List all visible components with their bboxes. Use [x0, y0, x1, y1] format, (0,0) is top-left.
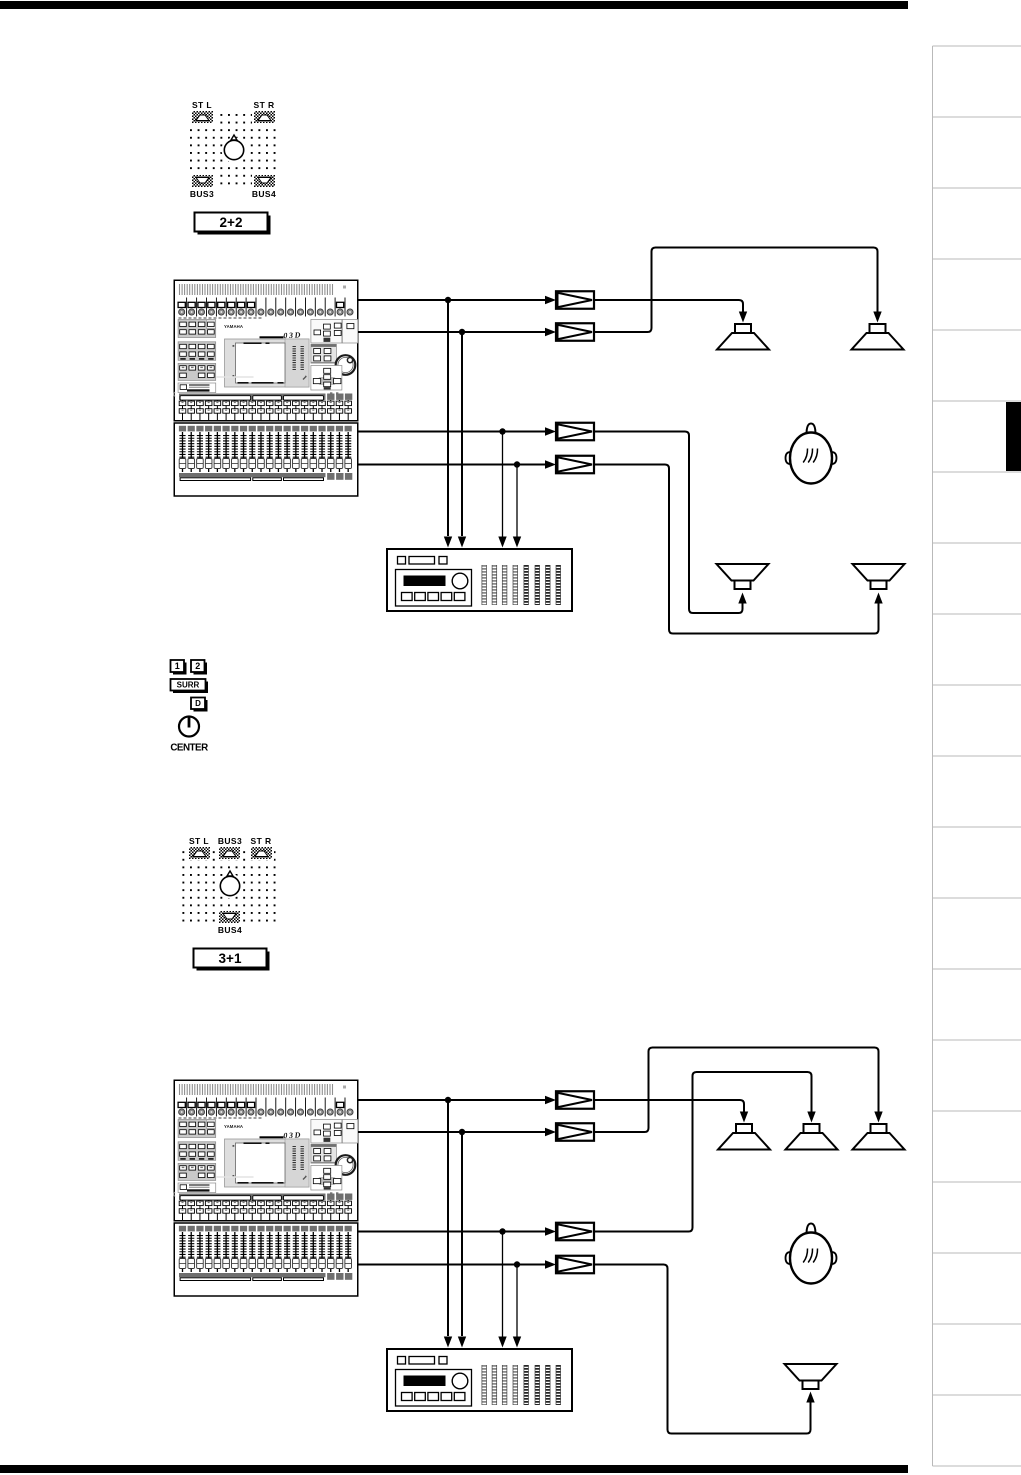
speaker icon ST R	[252, 110, 277, 125]
junction BUS3 (setup 2)	[499, 1228, 505, 1234]
svg-text:ST R: ST R	[251, 836, 272, 846]
svg-text:BUS4: BUS4	[218, 925, 242, 935]
drop wire ST L to recorder (setup 2)	[447, 1100, 449, 1336]
wire amp1 to front-left speaker	[594, 300, 743, 312]
drop wire BUS4 to recorder	[516, 465, 518, 539]
LCD surround pan graphic 2+2	[185, 111, 279, 190]
active chapter tab (black)	[1006, 402, 1021, 471]
speaker icon BUS4	[252, 174, 277, 189]
amp 3 (center, setup 2)	[556, 1223, 594, 1241]
wire amp4 to rear-right speaker	[594, 465, 879, 634]
junction on BUS3 wire	[499, 428, 505, 434]
svg-text:ST R: ST R	[254, 100, 275, 110]
junction BUS4 (setup 2)	[514, 1261, 520, 1267]
junction on ST L wire	[445, 297, 451, 303]
rear-right speaker	[853, 564, 905, 589]
wire ST R out to amp 2 (setup 2)	[358, 1131, 546, 1133]
svg-text:3+1: 3+1	[219, 951, 242, 966]
listener head icon (3+1)	[218, 871, 243, 899]
top black rule	[0, 1, 908, 9]
right sidebar tab column	[933, 46, 1021, 1466]
speaker icon ST L (3+1)	[187, 846, 212, 861]
wire BUS3 out to amp 3 (setup 2)	[358, 1231, 546, 1233]
knob CENTER	[179, 717, 199, 737]
amp 3 (rear left)	[556, 423, 594, 441]
mode button 3+1	[197, 952, 270, 971]
multitrack recorder setup 2	[387, 1349, 572, 1411]
svg-text:BUS3: BUS3	[190, 189, 214, 199]
button SURR	[173, 682, 208, 694]
speaker icon BUS3 (3+1)	[217, 846, 242, 861]
svg-text:ST L: ST L	[189, 836, 209, 846]
speaker icon ST R (3+1)	[249, 846, 274, 861]
svg-text:ST L: ST L	[192, 100, 212, 110]
speaker icon ST L	[190, 110, 215, 125]
wire ST R out to amp 2	[358, 331, 546, 333]
wire ST L out to amp 1	[358, 299, 546, 301]
mode button 2+2	[198, 216, 271, 235]
svg-text:CENTER: CENTER	[170, 743, 208, 754]
drop wire ST L to recorder	[447, 300, 449, 536]
wire amp4 to rear speaker (setup 2)	[594, 1265, 811, 1434]
amp 4 (surround, setup 2)	[556, 1256, 594, 1274]
wire BUS4 out to amp 4 (setup 2)	[358, 1264, 546, 1266]
front-left speaker	[717, 324, 769, 350]
listener head setup 2	[786, 1224, 837, 1284]
mixer console (03D) setup 1	[174, 280, 358, 496]
multitrack recorder setup 1	[387, 549, 572, 611]
amp 4 (rear right)	[556, 456, 594, 474]
svg-text:2+2: 2+2	[220, 215, 243, 230]
button 1	[173, 663, 187, 675]
center speaker (setup 2)	[786, 1124, 838, 1150]
amp 2 (right, setup 2)	[556, 1123, 594, 1141]
svg-text:2: 2	[195, 661, 200, 671]
wire ST L out to amp 1 (setup 2)	[358, 1099, 546, 1101]
amp 1 (front left)	[556, 291, 594, 309]
mixer console (03D) setup 2	[174, 1080, 358, 1296]
speaker icon BUS3	[190, 174, 215, 189]
svg-text:D: D	[195, 699, 201, 708]
rear-left speaker	[717, 564, 769, 589]
amp 2 (front right)	[556, 323, 594, 341]
junction ST L (setup 2)	[445, 1097, 451, 1103]
front-right speaker	[852, 324, 904, 350]
bottom black rule	[0, 1465, 908, 1473]
wire amp1 to left speaker (setup 2)	[594, 1100, 744, 1112]
junction ST R (setup 2)	[459, 1129, 465, 1135]
drop wire BUS3 to recorder	[502, 432, 504, 539]
wire amp3 to rear-left speaker	[594, 432, 743, 614]
svg-text:BUS4: BUS4	[252, 189, 276, 199]
speaker icon BUS4 (3+1)	[217, 910, 242, 925]
svg-text:BUS3: BUS3	[218, 836, 242, 846]
button D	[194, 700, 208, 712]
LCD surround pan graphic 3+1	[182, 847, 278, 926]
wire BUS3 out to amp 3	[358, 431, 546, 433]
wire amp3 to center speaker (setup 2)	[594, 1072, 812, 1232]
junction on BUS4 wire	[514, 461, 520, 467]
left speaker (setup 2)	[718, 1124, 770, 1150]
button 2	[194, 663, 208, 675]
drop wire ST R to recorder	[461, 332, 463, 536]
right speaker (setup 2)	[853, 1124, 905, 1150]
wire amp2 to front-right speaker	[594, 248, 878, 333]
listener head setup 1	[786, 424, 837, 484]
junction on ST R wire	[459, 329, 465, 335]
listener head icon	[222, 135, 247, 163]
svg-text:SURR: SURR	[177, 681, 200, 690]
wire BUS4 out to amp 4	[358, 464, 546, 466]
drop wire BUS4 to recorder (setup 2)	[516, 1265, 518, 1339]
svg-text:1: 1	[175, 661, 180, 671]
drop wire ST R to recorder (setup 2)	[461, 1132, 463, 1336]
wire amp2 to right speaker (setup 2)	[594, 1048, 879, 1133]
amp 1 (left, setup 2)	[556, 1091, 594, 1109]
rear surround speaker (setup 2)	[785, 1364, 837, 1389]
drop wire BUS3 to recorder (setup 2)	[502, 1232, 504, 1339]
